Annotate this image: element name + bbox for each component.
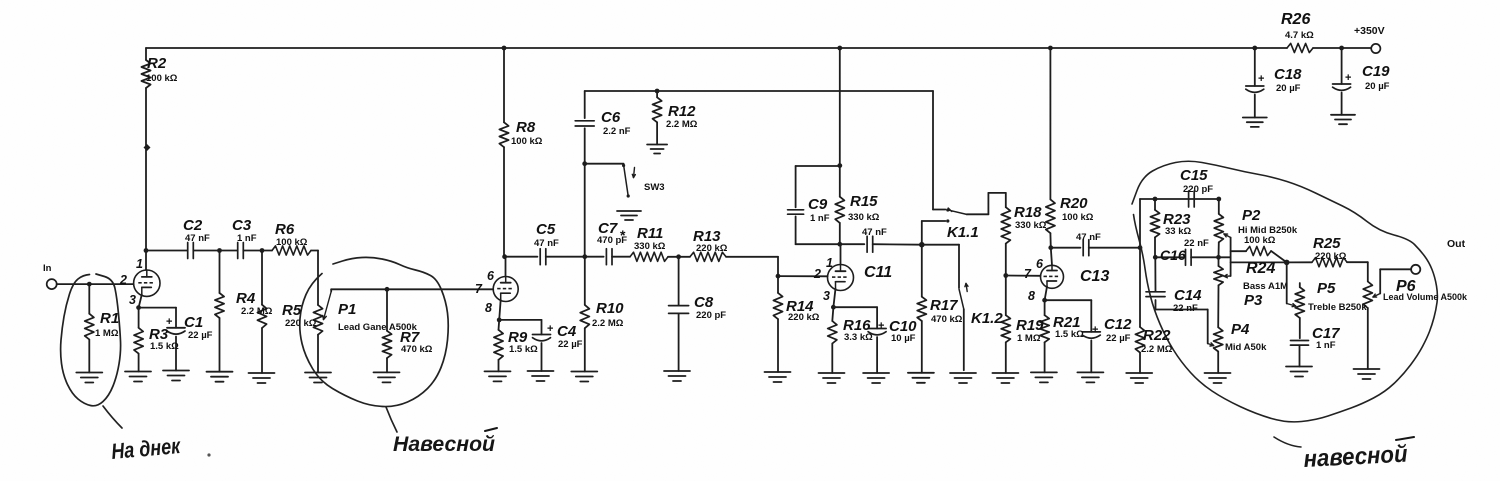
svg-text:C18: C18 <box>1274 66 1302 83</box>
svg-text:C12: C12 <box>1104 316 1132 333</box>
svg-text:2.2 MΩ: 2.2 MΩ <box>592 318 624 329</box>
svg-text:330 kΩ: 330 kΩ <box>1015 220 1047 231</box>
svg-text:330 kΩ: 330 kΩ <box>634 241 666 252</box>
svg-text:R1: R1 <box>100 310 119 327</box>
svg-text:470 kΩ: 470 kΩ <box>401 344 433 355</box>
svg-text:C14: C14 <box>1174 287 1202 304</box>
svg-text:R20: R20 <box>1060 195 1088 212</box>
svg-text:100 kΩ: 100 kΩ <box>146 73 178 84</box>
svg-text:2.2 MΩ: 2.2 MΩ <box>666 119 698 130</box>
svg-text:C2: C2 <box>183 217 203 234</box>
svg-text:+: + <box>1092 324 1098 336</box>
svg-text:SW3: SW3 <box>644 182 665 193</box>
svg-text:47 nF: 47 nF <box>534 238 559 249</box>
svg-text:C4: C4 <box>557 323 577 340</box>
svg-text:C15: C15 <box>1180 167 1208 184</box>
svg-text:R15: R15 <box>850 193 878 210</box>
svg-text:22 µF: 22 µF <box>1106 333 1131 344</box>
svg-text:+: + <box>1345 72 1351 84</box>
svg-text:220 pF: 220 pF <box>696 310 726 321</box>
svg-text:R24: R24 <box>1246 260 1275 277</box>
svg-text:3: 3 <box>823 289 830 303</box>
svg-text:47 nF: 47 nF <box>185 233 210 244</box>
svg-text:R8: R8 <box>516 119 536 136</box>
svg-text:*: * <box>620 227 626 243</box>
svg-text:22 nF: 22 nF <box>1173 303 1198 314</box>
svg-text:1.5 kΩ: 1.5 kΩ <box>1055 329 1084 340</box>
svg-text:C9: C9 <box>808 196 828 213</box>
svg-text:7: 7 <box>475 282 483 296</box>
svg-text:C5: C5 <box>536 221 556 238</box>
svg-text:3: 3 <box>129 293 136 307</box>
svg-text:R6: R6 <box>275 221 295 238</box>
svg-text:22 µF: 22 µF <box>188 330 213 341</box>
svg-text:3.3 kΩ: 3.3 kΩ <box>844 332 873 343</box>
svg-text:+: + <box>1258 73 1264 85</box>
svg-text:220 kΩ: 220 kΩ <box>788 312 820 323</box>
svg-text:C19: C19 <box>1362 63 1390 80</box>
svg-text:47 nF: 47 nF <box>862 227 887 238</box>
svg-text:Lead Volume A500k: Lead Volume A500k <box>1383 292 1468 302</box>
svg-text:P3: P3 <box>1244 292 1263 309</box>
svg-text:P1: P1 <box>338 301 356 318</box>
svg-text:2: 2 <box>119 273 127 287</box>
svg-text:Treble B250k: Treble B250k <box>1308 302 1367 313</box>
svg-text:R26: R26 <box>1281 11 1310 28</box>
svg-text:C3: C3 <box>232 217 252 234</box>
svg-text:4.7 kΩ: 4.7 kΩ <box>1285 30 1314 41</box>
svg-text:100 kΩ: 100 kΩ <box>1062 212 1094 223</box>
svg-text:220 kΩ: 220 kΩ <box>285 318 317 329</box>
svg-text:K1.1: K1.1 <box>947 224 979 241</box>
svg-text:Out: Out <box>1447 238 1466 250</box>
svg-text:Bass A1M: Bass A1M <box>1243 281 1288 292</box>
svg-text:100 kΩ: 100 kΩ <box>276 237 308 248</box>
svg-text:C13: C13 <box>1080 268 1109 285</box>
svg-text:2.2 MΩ: 2.2 MΩ <box>241 306 273 317</box>
svg-text:8: 8 <box>485 301 492 315</box>
svg-text:2: 2 <box>813 267 821 281</box>
svg-text:22 µF: 22 µF <box>558 339 583 350</box>
svg-text:1 MΩ: 1 MΩ <box>1017 333 1041 344</box>
svg-text:6: 6 <box>487 269 495 283</box>
svg-text:100 kΩ: 100 kΩ <box>511 136 543 147</box>
svg-text:22 nF: 22 nF <box>1184 238 1209 249</box>
svg-text:20 µF: 20 µF <box>1365 81 1390 92</box>
svg-text:R2: R2 <box>147 55 167 72</box>
svg-text:R18: R18 <box>1014 204 1042 221</box>
svg-text:P5: P5 <box>1317 280 1336 297</box>
svg-text:1 nF: 1 nF <box>810 213 830 224</box>
svg-text:20 µF: 20 µF <box>1276 83 1301 94</box>
svg-text:470 kΩ: 470 kΩ <box>931 314 963 325</box>
svg-text:C16: C16 <box>1160 247 1186 263</box>
svg-text:1 nF: 1 nF <box>1316 340 1336 351</box>
svg-text:6: 6 <box>1036 257 1044 271</box>
svg-text:R11: R11 <box>637 225 663 242</box>
svg-text:C11: C11 <box>864 264 892 281</box>
svg-text:R25: R25 <box>1313 235 1341 252</box>
svg-text:навесной: навесной <box>1303 441 1409 473</box>
svg-text:Mid A50k: Mid A50k <box>1225 342 1267 353</box>
svg-text:+: + <box>547 323 553 335</box>
svg-text:R19: R19 <box>1016 317 1044 334</box>
svg-text:R10: R10 <box>596 300 624 317</box>
svg-text:+: + <box>166 316 172 328</box>
svg-text:R22: R22 <box>1143 327 1171 344</box>
svg-text:1 nF: 1 nF <box>237 233 257 244</box>
svg-text:Навесной: Навесной <box>393 433 495 456</box>
svg-text:10 µF: 10 µF <box>891 333 916 344</box>
svg-text:8: 8 <box>1028 289 1035 303</box>
svg-text:P2: P2 <box>1242 207 1261 224</box>
svg-text:P4: P4 <box>1231 321 1250 338</box>
svg-text:1: 1 <box>136 257 143 271</box>
svg-text:1.5 kΩ: 1.5 kΩ <box>150 341 179 352</box>
svg-text:R4: R4 <box>236 290 256 307</box>
svg-text:C8: C8 <box>694 294 714 311</box>
svg-text:2.2 nF: 2.2 nF <box>603 126 631 137</box>
svg-text:7: 7 <box>1024 267 1032 281</box>
svg-text:R17: R17 <box>930 297 958 314</box>
svg-text:1: 1 <box>826 256 833 270</box>
svg-text:K1.2: K1.2 <box>971 310 1003 327</box>
svg-text:2.2 MΩ: 2.2 MΩ <box>1141 344 1173 355</box>
svg-text:220 pF: 220 pF <box>1183 184 1213 195</box>
svg-text:47 nF: 47 nF <box>1076 232 1101 243</box>
svg-text:C6: C6 <box>601 109 621 126</box>
svg-text:C1: C1 <box>184 314 203 331</box>
svg-text:+: + <box>878 320 884 332</box>
svg-text:R12: R12 <box>668 103 696 120</box>
svg-text:+350V: +350V <box>1354 25 1385 37</box>
svg-text:220 kΩ: 220 kΩ <box>696 243 728 254</box>
svg-text:In: In <box>43 263 52 274</box>
svg-text:100 kΩ: 100 kΩ <box>1244 235 1276 246</box>
svg-text:1 MΩ: 1 MΩ <box>95 328 119 339</box>
svg-text:220 kΩ: 220 kΩ <box>1315 251 1347 262</box>
svg-text:33 kΩ: 33 kΩ <box>1165 226 1191 237</box>
svg-text:330 kΩ: 330 kΩ <box>848 212 880 223</box>
svg-text:R5: R5 <box>282 302 302 319</box>
svg-text:1.5 kΩ: 1.5 kΩ <box>509 344 538 355</box>
